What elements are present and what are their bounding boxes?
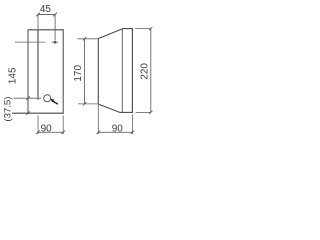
svg-text:90: 90 — [41, 124, 53, 135]
right edge — [131, 29, 133, 113]
svg-text:90: 90 — [112, 124, 124, 135]
tick 45 right — [53, 13, 57, 17]
left edge — [97, 39, 99, 105]
body bottom edge + (37.5) lower extension — [12, 112, 64, 114]
tick 37.5 bottom — [26, 111, 30, 115]
90 dim left ext line — [37, 115, 39, 134]
tick 90r left — [97, 131, 101, 135]
170 dim line — [84, 39, 86, 104]
90 dim line (right view) — [98, 131, 132, 133]
hole extension line — [15, 41, 45, 43]
tick 90 right — [61, 131, 65, 135]
slant top — [98, 29, 123, 39]
bottom bevel — [98, 104, 120, 112]
tick 170 top — [83, 37, 86, 40]
dash through dot — [52, 41, 59, 43]
top edge — [122, 28, 133, 30]
body right edge — [62, 29, 64, 113]
tick 220 top — [149, 27, 152, 30]
90 dim right-view left ext — [97, 104, 99, 134]
outlet extension line — [14, 97, 42, 99]
90 dim line — [38, 131, 63, 133]
90 dim right-view right ext — [131, 114, 133, 134]
tick 45 left — [36, 13, 40, 17]
tick 90 left — [36, 131, 40, 135]
inner back-plate line — [121, 29, 123, 113]
170 top ext line — [78, 38, 98, 40]
220 dim line — [150, 29, 152, 113]
220 bottom ext line — [136, 111, 151, 113]
outlet arrow — [50, 99, 58, 105]
body left edge (extends up as 45-dim extension; stops at y=98) — [37, 14, 39, 29]
145/37.5 dim line — [27, 30, 29, 113]
outlet circle — [44, 95, 51, 102]
mounting hole dot — [54, 41, 57, 44]
45 dim line — [38, 14, 55, 16]
svg-text:(37.5): (37.5) — [3, 97, 14, 122]
tick 170 bottom — [83, 102, 86, 105]
svg-text:45: 45 — [40, 4, 52, 15]
tick mid (outlet) — [26, 96, 30, 100]
bottom edge — [119, 111, 132, 113]
body left edge lower part — [37, 29, 39, 99]
centerline to mounting hole — [54, 14, 56, 40]
tick 220 bottom — [149, 111, 152, 114]
tick 90r right — [131, 131, 135, 135]
svg-text:170: 170 — [73, 65, 84, 82]
170 bottom ext line — [78, 103, 98, 105]
90 dim right ext line — [62, 115, 64, 134]
svg-text:220: 220 — [140, 63, 151, 80]
svg-text:145: 145 — [8, 67, 19, 84]
220 top ext line — [135, 28, 151, 30]
body top edge — [28, 29, 64, 31]
